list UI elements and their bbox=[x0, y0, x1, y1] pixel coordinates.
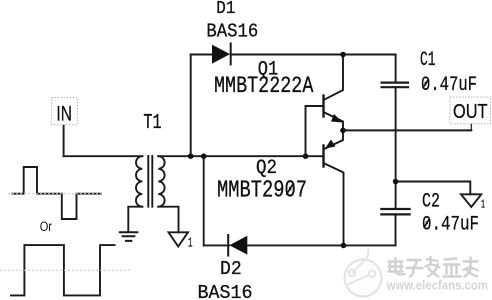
svg-text:T1: T1 bbox=[143, 112, 161, 135]
wire bottom rail left bbox=[204, 244, 229, 246]
wire IN to transformer primary bbox=[64, 155, 143, 157]
wire top rail left bbox=[191, 54, 213, 56]
watermark chinese text 电子发烧友 bbox=[389, 257, 479, 277]
svg-text:0.47uF: 0.47uF bbox=[422, 214, 479, 237]
wire OUT stub bbox=[470, 124, 472, 131]
wire D1 branch vertical bbox=[190, 55, 192, 157]
power port 1 left (triangle) bbox=[169, 232, 189, 246]
svg-text:C2: C2 bbox=[422, 191, 440, 214]
svg-text:1: 1 bbox=[188, 236, 193, 252]
Q2 emitter arrow bbox=[325, 140, 336, 149]
slashed zero marks bbox=[286, 79, 429, 228]
wire Q2 emitter bbox=[325, 130, 344, 148]
wire mid to power port bbox=[396, 182, 471, 195]
wire C1 to C2 bbox=[395, 87, 397, 209]
wire OUT bbox=[343, 129, 471, 131]
wire IN stub bbox=[63, 125, 65, 156]
svg-text:Or: Or bbox=[40, 219, 53, 234]
capacitor C1 plates bbox=[382, 83, 408, 88]
svg-text:Q2: Q2 bbox=[256, 157, 277, 180]
ground bbox=[120, 232, 138, 241]
svg-text:1: 1 bbox=[481, 198, 485, 212]
transformer T1 primary winding bbox=[136, 156, 142, 207]
junction node (305.5,156.2) bbox=[303, 153, 309, 159]
wire D2 branch vertical bbox=[203, 156, 205, 245]
diode D2 cathode bar bbox=[227, 235, 229, 256]
junction node (343,54.5) bbox=[340, 52, 346, 58]
wire secondary top / base rail bbox=[158, 155, 322, 157]
svg-text:BAS16: BAS16 bbox=[206, 21, 258, 43]
junction node (343.5,245.4) bbox=[341, 243, 347, 249]
diode D1 cathode bar bbox=[230, 43, 232, 64]
svg-text:MMBT2222A: MMBT2222A bbox=[214, 73, 314, 99]
svg-text:0.47uF: 0.47uF bbox=[421, 74, 477, 97]
svg-text:D2: D2 bbox=[220, 258, 242, 280]
junction node (203.7,156.2) bbox=[201, 153, 207, 159]
port OUT box bbox=[450, 97, 491, 124]
junction node (395.6,181.5) bbox=[393, 179, 399, 185]
svg-text:www.elecfans.com: www.elecfans.com bbox=[386, 278, 488, 293]
port IN box bbox=[52, 98, 78, 125]
svg-text:IN: IN bbox=[56, 101, 72, 125]
junction node (343,130.4) bbox=[340, 128, 346, 134]
watermark logo circle bbox=[345, 248, 382, 297]
svg-text:MMBT2907: MMBT2907 bbox=[217, 178, 307, 205]
diode D2 triangle bbox=[229, 236, 247, 255]
wire top rail right bbox=[231, 54, 396, 56]
wire primary bottom bbox=[128, 207, 142, 232]
transformer T1 secondary winding bbox=[158, 156, 164, 207]
transformer T1 core bbox=[148, 156, 152, 207]
diode D1 triangle bbox=[212, 45, 230, 64]
wire secondary bottom bbox=[158, 207, 178, 233]
junction node (190.7,156.2) bbox=[188, 153, 194, 159]
svg-text:C1: C1 bbox=[420, 49, 436, 72]
transistor Q2 base bar bbox=[322, 146, 324, 167]
wire Q1 emitter bbox=[325, 113, 344, 131]
wire bottom rail right bbox=[247, 244, 395, 246]
Q1 emitter arrow bbox=[331, 114, 343, 123]
wire C1 top lead bbox=[395, 55, 397, 83]
transistor Q1 base bar bbox=[322, 96, 324, 117]
wire C2 bottom lead bbox=[395, 214, 397, 245]
baseline dotted top bbox=[8, 193, 103, 195]
svg-text:D1: D1 bbox=[216, 0, 235, 19]
svg-text:OUT: OUT bbox=[453, 100, 488, 123]
svg-text:BAS16: BAS16 bbox=[198, 282, 253, 300]
waveform square bottom bbox=[11, 245, 115, 295]
wire Q2 collector bbox=[325, 164, 344, 246]
waveform pulse top bbox=[13, 167, 102, 219]
capacitor C2 plates bbox=[381, 209, 409, 214]
baseline dotted bottom bbox=[0, 269, 130, 271]
wire Q1 collector bbox=[325, 55, 344, 100]
wire Q1 base branch bbox=[306, 106, 324, 156]
power port 1 right (triangle) bbox=[461, 194, 481, 207]
